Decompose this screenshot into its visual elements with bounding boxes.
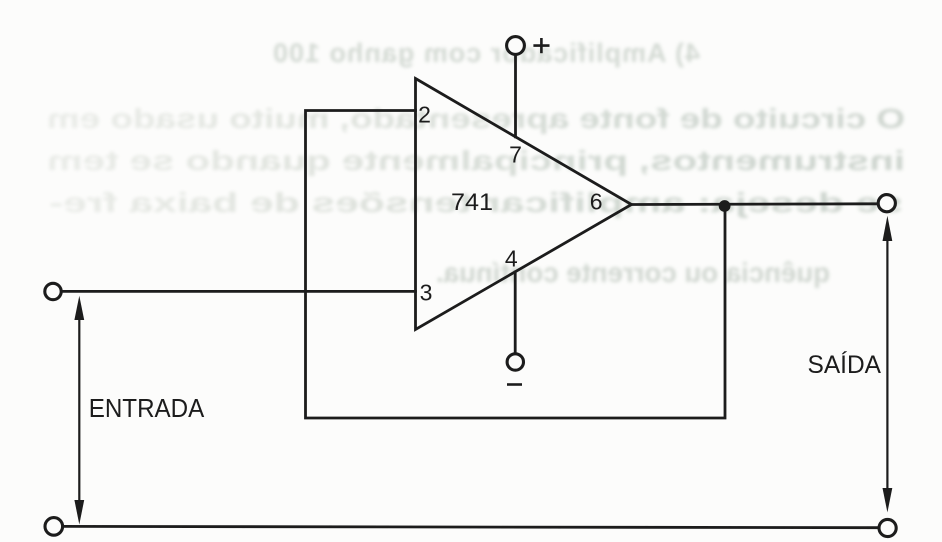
terminal: V+	[507, 37, 525, 55]
SAIDA dimension arrow	[883, 216, 893, 513]
wire: bottom common rail	[63, 526, 879, 527]
wire: V+ supply to pin 7	[514, 54, 517, 137]
ghost bleed-through text, row 3	[47, 145, 905, 176]
junction node: output/feedback	[719, 200, 731, 212]
svg-text:4: 4	[505, 246, 518, 272]
terminal: input	[45, 283, 61, 299]
svg-text:7: 7	[509, 141, 522, 167]
terminal: bottom right	[879, 519, 896, 536]
svg-text:instrumentos, principalmente q: instrumentos, principalmente quando se t…	[47, 145, 905, 176]
svg-text:ENTRADA: ENTRADA	[89, 393, 205, 423]
wire: pin2 feedback net (pin2 stub, left down, bottom run, up to output)	[306, 111, 726, 419]
label: - supply	[507, 383, 522, 386]
label: + supply	[533, 38, 549, 53]
op-amp U1 triangle	[416, 79, 632, 330]
svg-text:4) Amplificador com ganho 100: 4) Amplificador com ganho 100	[272, 38, 700, 68]
ghost bleed-through text, row 4	[49, 187, 903, 218]
svg-text:741: 741	[451, 189, 493, 216]
terminal: V-	[507, 354, 523, 370]
svg-text:O circuito de fonte apresentad: O circuito de fonte apresentado, muito u…	[47, 103, 905, 134]
svg-text:2: 2	[418, 102, 431, 128]
wire: V- supply to pin 4	[514, 272, 517, 354]
svg-text:SAÍDA: SAÍDA	[808, 350, 882, 379]
ghost bleed-through text, row 2	[47, 103, 905, 134]
wire: output net pin 6	[632, 202, 879, 205]
wire: input net to pin 3	[62, 290, 416, 293]
terminal: output	[878, 195, 895, 212]
ENTRADA dimension arrow	[74, 296, 84, 525]
svg-text:3: 3	[420, 280, 433, 306]
svg-text:6: 6	[590, 189, 603, 215]
ghost bleed-through text, row 5	[436, 257, 830, 288]
ghost bleed-through text (mirrored), row 1	[272, 38, 700, 68]
terminal: bottom left	[45, 518, 63, 536]
